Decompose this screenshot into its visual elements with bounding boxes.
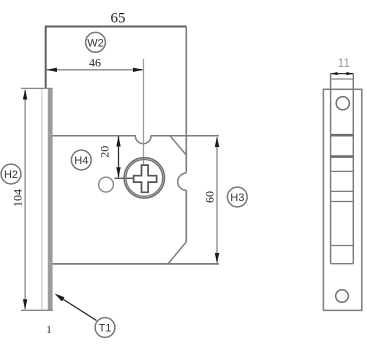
svg-text:T1: T1	[99, 323, 112, 335]
svg-text:46: 46	[89, 56, 101, 70]
svg-text:11: 11	[338, 56, 351, 70]
svg-text:65: 65	[111, 11, 126, 27]
svg-text:1: 1	[46, 324, 52, 336]
svg-text:104: 104	[11, 189, 25, 207]
svg-text:60: 60	[202, 191, 216, 203]
svg-text:20: 20	[98, 146, 112, 158]
svg-text:W2: W2	[87, 37, 104, 49]
svg-text:H2: H2	[4, 169, 18, 181]
svg-text:H3: H3	[230, 192, 244, 204]
svg-text:H4: H4	[74, 155, 88, 167]
